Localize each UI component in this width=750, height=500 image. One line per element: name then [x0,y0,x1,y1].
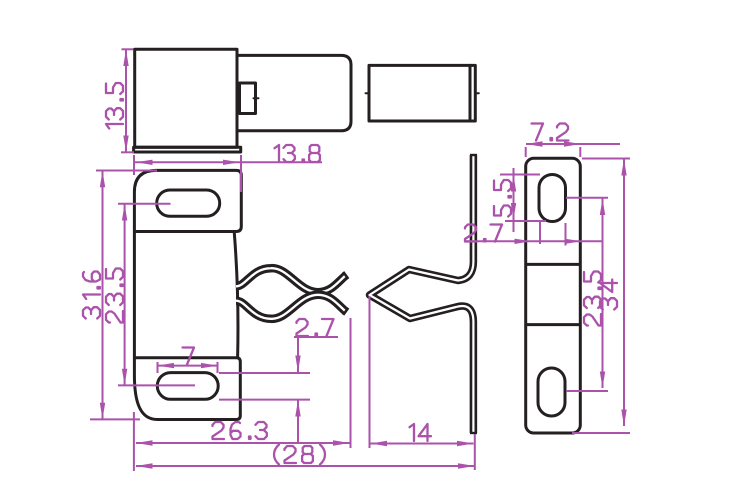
dim 34 lines [582,158,630,160]
front view: body right edge curve [234,232,238,358]
front view: outline [134,170,241,419]
top view: base plate [134,147,241,152]
text 14 [410,424,415,441]
text 2.7 front [297,319,309,336]
top view: notch tick [254,97,259,99]
front view: top oblong hole [157,190,220,216]
text 7 [183,348,195,365]
dim 14 lines [369,296,371,448]
dim 7.2 lines [525,147,527,157]
dim 5.5 lines [500,174,540,176]
top right: inner edge line [469,65,472,121]
front view: bottom oblong hole [157,373,218,400]
arrowheads [123,50,128,67]
dim (28) lines [474,434,476,470]
spring arm lower [236,295,346,319]
dim 2.7 right lines [464,240,602,242]
top view: housing rounded end [237,55,351,130]
side view bottom cap [470,432,477,434]
dim 23.5 right lines [566,197,608,199]
text 26.3 [213,422,225,439]
dim 2.7 front lines [219,372,310,374]
spring arm upper end cap [343,272,348,279]
spring arm upper [236,268,346,292]
dim 7 lines [157,362,159,373]
top right: strike plate edge view [369,65,475,121]
text 13.5 [106,83,123,129]
text 13.8 [275,145,280,162]
spring arm lower end cap [343,308,348,315]
text 7.2 [532,124,544,141]
strike plate crease 2 [527,323,579,326]
dim 23.5 left lines [118,203,171,205]
text 34 [600,280,617,310]
text 23.5 right [584,272,601,326]
text 23.5 left [106,269,123,323]
text (28) [274,445,279,465]
dim 13.8 lines [133,155,135,175]
strike plate crease 1 [527,263,579,266]
side view top cap [470,154,477,156]
top right: right mid tick [475,92,479,94]
strike plate outline [526,158,581,433]
top view: latch notch [240,83,256,114]
text 5.5 [494,180,511,217]
text 2.7 right [465,225,477,242]
dim 26.3 lines [133,412,135,471]
top right: left mid tick [366,92,370,94]
side view: clip profile [370,155,474,433]
top view: catch body square [135,49,237,147]
dim 13.5 lines [122,48,134,50]
dim 31.6 lines [96,170,157,172]
strike plate top hole [539,175,566,222]
strike plate bottom hole [538,368,565,416]
text 31.6 [83,272,100,319]
